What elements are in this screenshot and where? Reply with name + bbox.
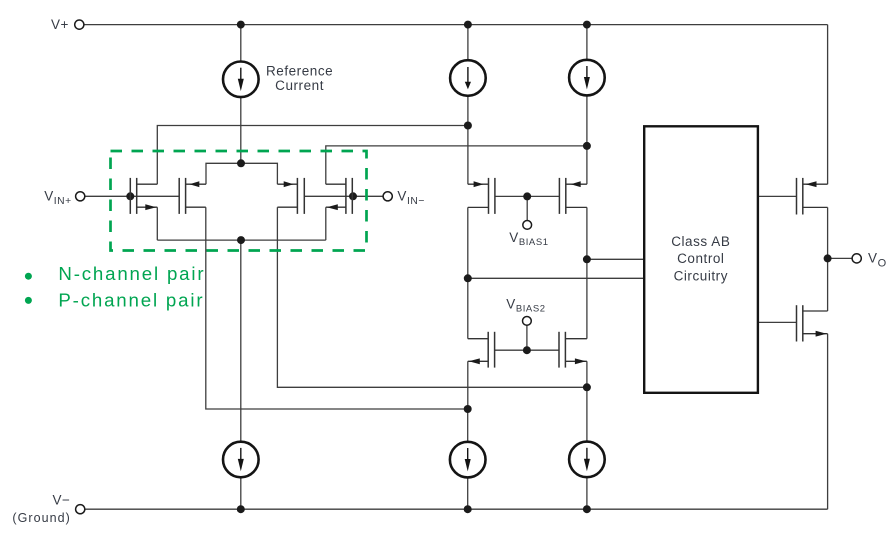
- terminal VO: [852, 254, 861, 263]
- junction output node: [824, 254, 832, 262]
- junction V+ rail / right top current source: [583, 21, 591, 29]
- junction V+ rail / left top current source: [464, 21, 472, 29]
- wire cascode node to Class AB box y=278.3: [468, 277, 644, 279]
- wire VIN- input line: [304, 195, 383, 197]
- wire V+ to left top current source: [467, 25, 469, 61]
- terminal V+: [75, 20, 84, 29]
- junction V- rail / bottom left current source: [237, 505, 245, 513]
- junction VIN+ at left outer gate: [126, 192, 134, 200]
- svg-text:Reference: Reference: [266, 64, 333, 79]
- wire output node to NMOS drain: [827, 258, 829, 311]
- current source bottom middle: [450, 442, 486, 478]
- wire V+ to reference current source: [240, 25, 242, 62]
- wire node B: right outer drain to right cascode node y=145.9: [326, 146, 587, 184]
- junction node A y=125.5: [464, 122, 472, 130]
- wire to bottom right current source: [586, 387, 588, 441]
- svg-text:(Ground): (Ground): [12, 511, 70, 525]
- svg-text:V+: V+: [51, 17, 69, 32]
- wire VBIAS2 stub to terminal: [526, 325, 528, 350]
- junction V+ rail / reference current: [237, 21, 245, 29]
- transistor Q8 VBIAS2 cascode right: [559, 332, 587, 368]
- wire input pair bottom tail rail: [157, 207, 325, 240]
- junction node B y=145.9: [583, 142, 591, 150]
- junction V- rail / bottom middle current source: [464, 505, 472, 513]
- transistor Q9 output PMOS: [797, 178, 828, 215]
- bullet 2: [25, 297, 32, 304]
- junction VIN- at right outer gate: [349, 192, 357, 200]
- junction V- rail / bottom right current source: [583, 505, 591, 513]
- transistor Q2 input P-channel left (VIN+ inner): [179, 178, 206, 214]
- transistor Q10 output NMOS: [797, 305, 828, 341]
- junction cascode right node y=259.3: [583, 255, 591, 263]
- wire V+ rail: [84, 24, 828, 26]
- svg-text:Current: Current: [275, 78, 324, 93]
- wire VBIAS1 right FET source down: [586, 207, 588, 259]
- wire left top current source down to VBIAS1 left FET: [467, 96, 469, 184]
- wire output PMOS drain to output node: [827, 207, 829, 258]
- svg-text:N-channel pair: N-channel pair: [58, 263, 205, 284]
- wire right top current source down to VBIAS1 right FET: [586, 95, 588, 184]
- wire VBIAS2 left FET drain up: [467, 278, 469, 338]
- wire left inner source down and across y=409: [206, 207, 468, 409]
- wire to bottom middle current source: [467, 409, 469, 442]
- wire bottom middle current source to V- rail: [467, 478, 469, 510]
- wire tail down to bottom left current source: [240, 240, 242, 442]
- wire bottom right current source to V- rail: [586, 477, 588, 509]
- wire VIN+ input line: [85, 195, 179, 197]
- wire VBIAS2 gate rail: [495, 349, 559, 351]
- terminal VIN+: [76, 192, 85, 201]
- svg-text:V−: V−: [53, 493, 71, 508]
- svg-text:Class AB: Class AB: [671, 234, 730, 249]
- terminal VIN-: [383, 192, 392, 201]
- transistor Q5 VBIAS1 cascode left: [468, 178, 495, 214]
- wire input pair top tail rail: [206, 163, 277, 184]
- wire right inner source down and across y=387.3: [277, 207, 587, 387]
- current source bottom left (N-pair tail): [223, 442, 259, 478]
- wire VBIAS1 left FET source down: [467, 207, 469, 278]
- transistor Q1 input N-channel left (VIN+ outer): [130, 178, 157, 214]
- current source top right cascode: [569, 60, 605, 96]
- wire output node to VO terminal: [828, 257, 853, 259]
- wire VBIAS1 gate rail: [495, 195, 560, 197]
- wire VBIAS2 right FET drain up: [586, 259, 588, 338]
- svg-text:Circuitry: Circuitry: [674, 268, 728, 283]
- terminal V-: [76, 505, 85, 514]
- junction VBIAS1 gate rail: [523, 192, 531, 200]
- junction middle lower node y=409: [464, 405, 472, 413]
- wire Class AB box to output NMOS gate: [758, 321, 797, 323]
- junction input pair bottom tail: [237, 236, 245, 244]
- junction right lower node y=387.3: [583, 383, 591, 391]
- wire V- rail: [85, 508, 828, 510]
- wire node A: left outer drain to left cascode node y=125.5: [157, 126, 468, 185]
- wire bottom left current source to V- rail: [240, 477, 242, 509]
- wire Class AB box to output PMOS gate: [758, 195, 797, 197]
- wire VBIAS2 left FET source down: [467, 361, 469, 409]
- terminal VBIAS2: [523, 317, 532, 326]
- wire output NMOS source down to V- rail: [827, 334, 829, 510]
- junction VBIAS2 gate rail: [523, 346, 531, 354]
- wire VBIAS1 stub to terminal: [526, 196, 528, 220]
- current source bottom right: [569, 442, 605, 478]
- highlight box input pair (green dashed): [111, 151, 367, 251]
- current source I-REF (Reference Current): [223, 62, 259, 98]
- wire reference current source to input pair top node: [240, 97, 242, 163]
- block U1 Class AB Control Circuitry: [644, 126, 758, 393]
- wire cascode node to Class AB box y=259.3: [587, 258, 644, 260]
- svg-text:P-channel pair: P-channel pair: [58, 290, 204, 311]
- junction input pair top tail: [237, 159, 245, 167]
- wire V+ rail right drop to output PMOS source lead: [827, 25, 829, 185]
- current source top left cascode: [450, 60, 486, 96]
- junction cascode left node y=278.3: [464, 274, 472, 282]
- wire V+ to right top current source: [586, 25, 588, 60]
- transistor Q3 input P-channel right (VIN- inner): [277, 178, 304, 214]
- wire VBIAS2 right FET source down: [586, 361, 588, 387]
- terminal VBIAS1: [523, 221, 532, 230]
- transistor Q7 VBIAS2 cascode left: [468, 332, 495, 368]
- svg-text:Control: Control: [677, 251, 724, 266]
- transistor Q4 input N-channel right (VIN- outer): [326, 178, 353, 214]
- transistor Q6 VBIAS1 cascode right: [559, 178, 587, 214]
- bullet 1: [25, 273, 32, 280]
